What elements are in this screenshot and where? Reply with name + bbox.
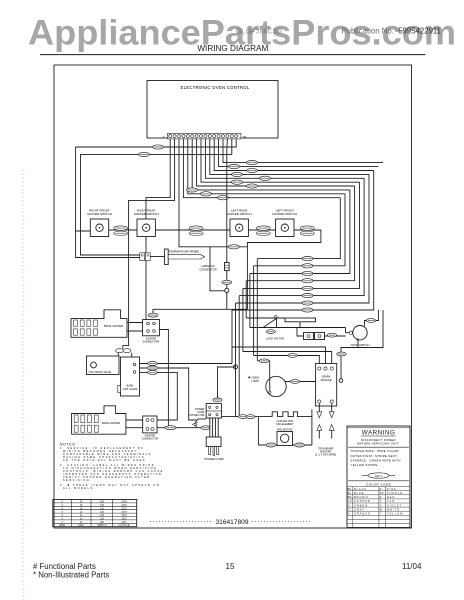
wire label fan line 2 xyxy=(229,165,240,169)
dotted separators xyxy=(150,521,213,523)
igniter switch S2 RIGHT REAR xyxy=(134,209,159,237)
igniter switch S1 RIGHT FRONT xyxy=(87,209,112,237)
svg-text:CONNECTOR: CONNECTOR xyxy=(188,414,204,417)
harness connector xyxy=(199,263,229,272)
wire label harness xyxy=(222,280,232,284)
wire labels switch 3-4 xyxy=(256,226,270,236)
svg-text:(2, 3, 4 OR 5 WIRE): (2, 3, 4 OR 5 WIRE) xyxy=(315,453,337,456)
bake igniter xyxy=(72,406,126,434)
svg-text:125: 125 xyxy=(100,512,105,514)
svg-text:3173: 3173 xyxy=(121,512,127,514)
wire label fan line 9 xyxy=(201,192,212,196)
bake oven valve xyxy=(118,357,140,396)
wire: igniter switch row bus xyxy=(109,230,321,309)
svg-text:GY: GY xyxy=(348,508,352,511)
svg-text:10: 10 xyxy=(80,519,83,521)
junction node harness xyxy=(225,288,229,292)
svg-text:WHITE: WHITE xyxy=(387,508,400,511)
svg-text:8: 8 xyxy=(61,502,63,504)
wire bundle: oven control drops fanning right xyxy=(183,139,383,198)
svg-text:EXAMPLE: GREEN WIRE WITH: EXAMPLE: GREEN WIRE WITH xyxy=(351,458,401,462)
svg-text:Y: Y xyxy=(162,135,164,139)
wire: node branches xyxy=(210,247,227,309)
igniter switch S3 LEFT REAR xyxy=(227,209,252,237)
wire label middle line 7 xyxy=(302,301,313,305)
svg-text:TEMP °C: TEMP °C xyxy=(97,525,107,527)
svg-text:200: 200 xyxy=(100,522,105,524)
wire: valve outputs xyxy=(140,364,233,421)
svg-text:BEFORE SERVICING UNIT.: BEFORE SERVICING UNIT. xyxy=(358,442,400,446)
svg-text:Y: Y xyxy=(380,513,382,516)
wire label door switch xyxy=(366,319,376,323)
svg-text:BLACK: BLACK xyxy=(354,488,367,491)
spark module right terminal xyxy=(339,379,343,383)
svg-text:UL STYLE: UL STYLE xyxy=(119,525,130,527)
wire: long run to broil igniter xyxy=(153,309,247,313)
junction node lamp loop xyxy=(234,365,238,369)
svg-text:BROWN: BROWN xyxy=(354,496,369,499)
svg-text:2: 2 xyxy=(61,515,63,517)
svg-text:3173: 3173 xyxy=(121,508,127,510)
wire label broil igniter xyxy=(148,313,158,317)
svg-text:FAN MOTOR: FAN MOTOR xyxy=(277,427,292,431)
spark module xyxy=(316,364,337,407)
convection element xyxy=(272,409,312,445)
wire gauge table xyxy=(53,500,137,527)
wire: trunk left upper (terminal 16 to switches and probe) xyxy=(76,139,237,258)
svg-text:316417809: 316417809 xyxy=(215,519,248,526)
wire: valve feeds xyxy=(118,346,131,368)
igniter switch S4 LEFT FRONT xyxy=(272,209,297,237)
svg-text:P: P xyxy=(380,488,382,491)
svg-text:NOTED FIRST, STRIPE NEXT.: NOTED FIRST, STRIPE NEXT. xyxy=(351,454,398,458)
svg-text:IGNITER SWITCH: IGNITER SWITCH xyxy=(134,212,159,216)
svg-text:CONNECTOR: CONNECTOR xyxy=(143,340,160,344)
svg-text:12: 12 xyxy=(80,515,83,517)
ground symbol xyxy=(192,419,206,428)
svg-text:TEMPERATURE PROBE: TEMPERATURE PROBE xyxy=(169,250,199,254)
valve label ovals top xyxy=(116,349,132,353)
wire: bake connector out xyxy=(157,417,272,445)
wire: power cord feed xyxy=(218,367,236,398)
svg-text:POWER CORD: POWER CORD xyxy=(204,457,224,461)
svg-text:BROIL IGNITER: BROIL IGNITER xyxy=(104,324,123,328)
svg-text:CONNECTOR: CONNECTOR xyxy=(142,437,159,441)
lock motor cam triangle xyxy=(263,316,277,328)
wire: harness connector drop xyxy=(226,139,229,288)
svg-text:IGNITER SWITCH: IGNITER SWITCH xyxy=(87,212,112,216)
wire label valve 2 xyxy=(148,366,158,370)
svg-text:LAMP: LAMP xyxy=(252,379,259,383)
svg-text:105: 105 xyxy=(100,502,105,504)
wire label middle line 3 xyxy=(302,271,313,275)
wire label fan line 1 xyxy=(247,161,258,165)
wire label lock motor xyxy=(266,330,275,334)
wire labels switch 2-3 xyxy=(189,226,203,236)
svg-text:FAN ELEMENT: FAN ELEMENT xyxy=(276,423,294,426)
svg-text:4: 4 xyxy=(61,508,63,510)
wire: drop to broil igniter connector xyxy=(146,139,170,320)
wire label lamp xyxy=(259,359,269,363)
svg-text:V: V xyxy=(380,504,382,507)
temperature probe xyxy=(165,249,205,265)
wire: spark module feeds xyxy=(232,347,332,367)
svg-text:WARNING: WARNING xyxy=(362,430,395,437)
svg-text:OVN. BROIL VALVE: OVN. BROIL VALVE xyxy=(89,371,112,374)
fan motor xyxy=(277,427,293,445)
svg-text:3173: 3173 xyxy=(121,515,127,517)
wire: broil connector to bake circuit xyxy=(159,330,168,428)
wire: door switch top feed xyxy=(365,310,379,326)
svg-text:TRACER WIRE: WIRE COLOR: TRACER WIRE: WIRE COLOR xyxy=(351,449,399,453)
broil igniter xyxy=(71,310,127,338)
svg-text:18: 18 xyxy=(80,505,83,507)
svg-text:GLGF366CSB: GLGF366CSB xyxy=(236,27,283,36)
wire label fan 1 xyxy=(266,443,276,447)
wire label trunk 2 xyxy=(139,152,150,156)
temperature probe connector xyxy=(140,253,150,261)
svg-text:YELLOW STRIPE.: YELLOW STRIPE. xyxy=(351,463,379,467)
wire label fan line 8 xyxy=(187,188,198,192)
svg-text:OVN. VALVE: OVN. VALVE xyxy=(123,388,138,391)
wire label bake neutral xyxy=(201,426,210,430)
svg-text:105: 105 xyxy=(100,505,105,507)
notes text block xyxy=(60,442,164,490)
warning box xyxy=(347,426,410,528)
svg-text:PINK: PINK xyxy=(387,488,397,491)
wire label trunk 1 xyxy=(153,145,164,149)
svg-text:GREEN: GREEN xyxy=(354,504,368,507)
wire: fan motor leads xyxy=(258,444,312,446)
scan edge dotted margin xyxy=(22,170,24,600)
svg-text:DOOR SWITCH: DOOR SWITCH xyxy=(351,343,370,347)
wire label spark a xyxy=(288,354,298,358)
svg-text:2479: 2479 xyxy=(121,505,127,507)
svg-text:125: 125 xyxy=(100,508,105,510)
wire: broil igniter leads xyxy=(127,323,143,332)
svg-text:W: W xyxy=(243,135,246,139)
svg-text:BR: BR xyxy=(348,496,352,499)
wire bundle: middle verticals descending to components xyxy=(232,259,257,417)
wire label spark feed xyxy=(337,352,347,356)
wire: lock windings out xyxy=(297,328,346,337)
svg-text:BL: BL xyxy=(348,492,352,495)
wire: lamp feed xyxy=(257,361,315,382)
svg-text:IGNITER SWITCH: IGNITER SWITCH xyxy=(272,212,297,216)
svg-text:BK: BK xyxy=(348,488,352,491)
wire label middle line 8 xyxy=(302,308,313,312)
diagram outer border xyxy=(54,65,412,528)
svg-text:ORANGE: ORANGE xyxy=(354,513,371,516)
wire label fan line 3 xyxy=(247,168,258,172)
broil oven valve xyxy=(87,356,120,375)
wire label lock out xyxy=(327,333,336,337)
svg-text:WIRE: WIRE xyxy=(59,525,65,527)
svg-text:BLUE: BLUE xyxy=(354,492,365,495)
wire label fan line 7 xyxy=(247,184,258,188)
wire label middle line 6 xyxy=(302,294,313,298)
svg-text:14: 14 xyxy=(80,512,83,514)
svg-text:AS THE ORIGINAL MUST BE USED.: AS THE ORIGINAL MUST BE USED. xyxy=(63,459,148,462)
svg-text:125: 125 xyxy=(100,515,105,517)
wire label middle line 4 xyxy=(302,279,313,283)
svg-text:NOTES:: NOTES: xyxy=(60,442,77,446)
electronic oven control U1 xyxy=(147,81,278,139)
svg-text:COPPER: COPPER xyxy=(354,500,371,503)
svg-text:6: 6 xyxy=(61,505,63,507)
svg-text:3: 3 xyxy=(61,512,63,514)
wire label middle line 1 xyxy=(302,257,313,261)
wire labels switch 1-2 xyxy=(114,226,128,236)
bake igniter connector xyxy=(142,416,159,441)
svg-text:COLOR CODE: COLOR CODE xyxy=(366,482,391,486)
header rule xyxy=(40,54,426,56)
svg-text:G: G xyxy=(348,504,350,507)
svg-text:WIRING DIAGRAM: WIRING DIAGRAM xyxy=(197,44,268,53)
svg-text:CU: CU xyxy=(348,500,352,503)
wire labels switch 4 out xyxy=(300,226,314,236)
wire label fan line 6 xyxy=(232,180,243,184)
broil igniter connector xyxy=(143,320,160,344)
svg-text:BAKE IGNITER: BAKE IGNITER xyxy=(102,421,120,425)
svg-text:GRAY: GRAY xyxy=(354,508,365,511)
svg-text:VIOLET: VIOLET xyxy=(387,504,402,507)
wire label fan line 10 xyxy=(218,196,229,200)
lock motor windings xyxy=(304,333,325,340)
svg-text:RED: RED xyxy=(387,496,395,499)
svg-text:10: 10 xyxy=(80,522,83,524)
wire label fan line 5 xyxy=(260,176,271,180)
wire label fan line 4 xyxy=(232,172,243,176)
svg-text:ELECTRONIC OVEN CONTROL: ELECTRONIC OVEN CONTROL xyxy=(180,85,249,90)
spark module output arrows xyxy=(315,403,337,456)
svg-text:AWG: AWG xyxy=(78,524,84,527)
svg-text:125: 125 xyxy=(100,519,105,521)
oven lamp xyxy=(248,376,286,397)
svg-text:16: 16 xyxy=(80,508,83,510)
wire: drop to igniter switch return xyxy=(179,139,247,247)
svg-text:O: O xyxy=(348,513,350,516)
color code table xyxy=(347,487,410,528)
svg-text:GN-Y: GN-Y xyxy=(375,474,383,478)
wire label bake igniter xyxy=(165,426,176,430)
svg-text:ALL MODELS.: ALL MODELS. xyxy=(63,487,96,490)
svg-text:1: 1 xyxy=(61,522,63,524)
svg-text:PR: PR xyxy=(380,492,384,495)
wire bundle: right side verticals returning to middle xyxy=(232,171,374,311)
svg-text:20: 20 xyxy=(80,502,83,504)
svg-text:T: T xyxy=(380,500,382,503)
wire: drop to bake valve feed xyxy=(123,139,175,346)
svg-text:11/04: 11/04 xyxy=(402,562,422,571)
power cord connector xyxy=(188,403,221,418)
wire label valve 1 xyxy=(148,362,158,366)
lock motor platform xyxy=(285,318,316,328)
wire label power cord xyxy=(213,398,222,402)
wire label valve 3 xyxy=(148,370,158,374)
wire label oven loop b xyxy=(246,415,255,419)
wire: probe connector to probe xyxy=(150,256,164,258)
svg-text:MODULE: MODULE xyxy=(321,378,332,382)
svg-text:IGNITER SWITCH: IGNITER SWITCH xyxy=(227,212,252,216)
svg-text:15: 15 xyxy=(226,562,235,571)
wire label middle line 5 xyxy=(302,286,313,290)
svg-text:W: W xyxy=(380,508,383,511)
svg-text:3271: 3271 xyxy=(121,522,127,524)
wire label lamp out xyxy=(290,380,300,384)
wire: bake igniter leads xyxy=(126,420,143,428)
svg-text:PURPLE: PURPLE xyxy=(387,492,403,495)
svg-text:3271: 3271 xyxy=(121,519,127,521)
svg-text:* Non-Illustrated Parts: * Non-Illustrated Parts xyxy=(33,571,109,580)
wire label middle line 2 xyxy=(302,264,313,268)
power cord plug xyxy=(204,418,224,461)
terminal strip of oven control xyxy=(162,133,246,139)
svg-text:TAN: TAN xyxy=(387,500,395,503)
wire: trunk left lower (terminal 15 to probe) xyxy=(81,139,232,255)
door switch xyxy=(349,326,369,347)
wire label switch return xyxy=(228,245,239,249)
wire label oven loop a xyxy=(239,415,248,419)
svg-text:LOCK MOTOR: LOCK MOTOR xyxy=(266,337,284,341)
wire: platform feed xyxy=(246,317,285,319)
svg-text:SERVICING.: SERVICING. xyxy=(63,479,92,482)
wire: lock base line xyxy=(250,327,346,329)
svg-text:R: R xyxy=(380,496,382,499)
wire: door switch common xyxy=(341,310,383,379)
svg-text:YELLOW: YELLOW xyxy=(387,513,403,516)
svg-text:Publication No. 5995422911: Publication No. 5995422911 xyxy=(341,27,441,36)
svg-text:1: 1 xyxy=(61,519,63,521)
svg-text:2478: 2478 xyxy=(121,502,127,504)
svg-text:CONNECTOR: CONNECTOR xyxy=(199,267,216,271)
wire label fan 2 xyxy=(295,443,305,447)
